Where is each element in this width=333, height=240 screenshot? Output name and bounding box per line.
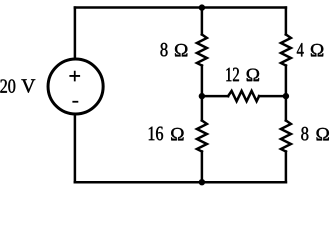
V1 plus sign (69, 71, 80, 82)
node dot bottom of middle branch (199, 179, 205, 185)
wire middle horizontal left lead (202, 95, 228, 98)
wire left-top (source top lead) (74, 8, 77, 59)
resistor 8 ohm (middle branch top) (197, 35, 207, 66)
wire top (75, 6, 286, 9)
resistor 16 ohm (middle branch bottom) (197, 121, 207, 152)
wire right branch mid lead (285, 66, 288, 121)
wire middle branch top lead (201, 8, 204, 35)
wire middle branch mid lead (201, 66, 204, 121)
V1 minus sign (72, 101, 78, 103)
wire middle horizontal right lead (259, 95, 286, 98)
node dot top of middle branch (199, 4, 205, 10)
label 4 ohm (297, 43, 323, 56)
label 12 ohm (226, 68, 259, 81)
resistor 8 ohm (right branch bottom) (281, 121, 291, 152)
node dot middle-right junction (283, 93, 289, 99)
resistor 12 ohm (horizontal) (228, 91, 259, 101)
wire bottom (75, 181, 286, 184)
wire right branch top lead (285, 8, 288, 35)
label 16 ohm (149, 127, 184, 141)
wire left-bottom (source bottom lead) (74, 114, 77, 182)
label 20 V (0, 79, 35, 92)
resistor 4 ohm (right branch top) (281, 35, 291, 66)
wire right branch bottom lead (285, 152, 288, 183)
label 8 ohm (right bottom) (301, 127, 329, 140)
wire middle branch bottom lead (201, 152, 204, 183)
node dot middle-left junction (199, 93, 205, 99)
label 8 ohm (middle top) (161, 43, 188, 57)
voltage source V1 20 V (48, 59, 103, 114)
